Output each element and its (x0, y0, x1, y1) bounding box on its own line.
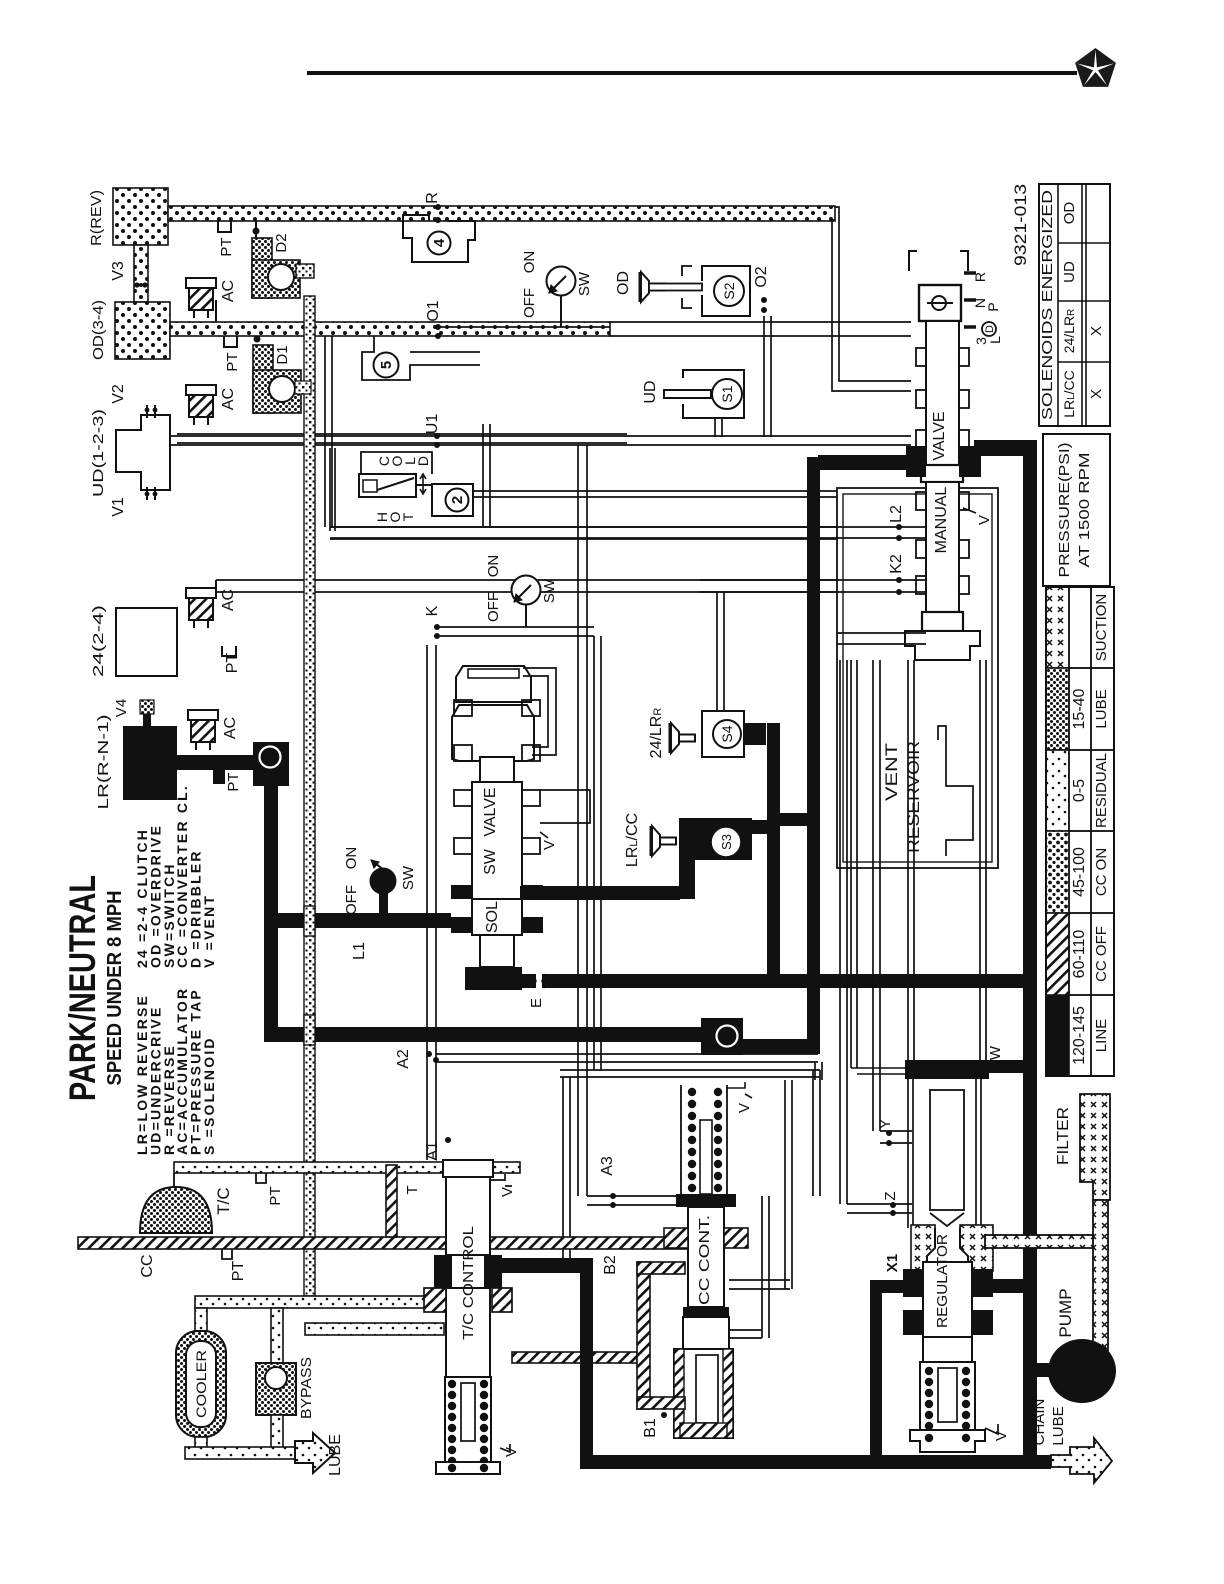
valve: T/C control upper (446, 1160, 490, 1255)
svg-text:OD: OD (1061, 202, 1078, 225)
vent V at t/c control (500, 1444, 510, 1452)
wire: K line right segment (434, 626, 594, 628)
svg-text:UD: UD (642, 380, 659, 403)
svg-text:5: 5 (378, 361, 395, 369)
junction square 3 (701, 1018, 743, 1055)
header rule line (307, 71, 1077, 75)
svg-text:LUBE: LUBE (1050, 1406, 1067, 1445)
wire: CC CONT output right (729, 1279, 790, 1281)
valve: CC CONT body (676, 1194, 736, 1207)
spool above regulator (W) (905, 1060, 989, 1079)
svg-text:A2: A2 (395, 1049, 412, 1069)
wire: R line turning to manual valve (835, 207, 911, 381)
check ball 5 loop (362, 336, 480, 380)
svg-text:T/C: T/C (214, 1187, 233, 1214)
svg-text:O1: O1 (425, 300, 442, 321)
svg-text:X1: X1 (884, 1254, 901, 1272)
suction channel to regulator (985, 1235, 1093, 1248)
svg-text:V =VENT: V =VENT (201, 894, 217, 968)
wire: D1 link channel (295, 381, 311, 394)
wire: U1 line to manual valve (340, 435, 911, 437)
hatch channel to B2 (512, 1352, 637, 1363)
vent at cc accumulator (727, 1082, 752, 1098)
svg-text:K2: K2 (888, 554, 905, 574)
svg-text:S1: S1 (719, 385, 735, 402)
valve: CC control spring (accumulator) (680, 1085, 682, 1194)
svg-text:S4: S4 (719, 725, 735, 742)
accumulator AC (od) (186, 385, 216, 395)
svg-text:VENT: VENT (882, 743, 901, 801)
switch SW (solenoid, on thick line) (370, 868, 397, 895)
wire: O1 line (610, 321, 911, 323)
svg-text:ON: ON (521, 251, 538, 274)
wire: K2 line from 24 accumulator (216, 579, 899, 581)
svg-text:OD(3-4): OD(3-4) (90, 300, 107, 360)
svg-text:A3: A3 (599, 1156, 616, 1176)
wire thick: X1 branch (870, 1280, 912, 1293)
junction square 1 (253, 742, 289, 786)
wire: R(REV) supply channel (168, 206, 835, 221)
wire: AC od riser (215, 300, 217, 322)
svg-text:PT: PT (267, 1186, 284, 1205)
wire thick: left drop from valve (807, 457, 820, 988)
svg-text:S2: S2 (721, 282, 737, 299)
wire: A1/A2 riser pair (426, 645, 428, 1160)
pressure tap PT (rev) (218, 221, 231, 232)
svg-text:D2: D2 (273, 233, 290, 252)
svg-text:LRL/CC: LRL/CC (1061, 370, 1077, 418)
pressure tap PT (t/c feed) (256, 1173, 266, 1183)
svg-text:CHAIN: CHAIN (1031, 1399, 1048, 1446)
svg-text:V: V (503, 1447, 520, 1457)
wire: S2 to U1 riser (763, 316, 765, 437)
dribbler D1 (254, 336, 261, 343)
valve: regulator body (923, 1262, 972, 1337)
wire: hot line stub (416, 484, 432, 486)
wire: CC CONT lower output (729, 1329, 762, 1331)
svg-text:B1: B1 (642, 1418, 659, 1438)
accumulator AC (lr) (188, 710, 218, 720)
wire thick: E manifold bar (467, 974, 1030, 988)
wire thick: 1 down (264, 786, 278, 1042)
svg-text:PT: PT (230, 1261, 247, 1282)
solenoid stub S4 black (744, 723, 766, 745)
svg-text:V1: V1 (110, 497, 127, 517)
wire: UD output to U1 line (170, 435, 340, 437)
svg-text:V: V (541, 840, 558, 850)
valve SW VALVE body (480, 757, 514, 782)
wire thick: LR clutch to 1 (177, 755, 253, 770)
wire: L2 line into valve (330, 526, 926, 528)
check ball 2 loop (432, 484, 473, 516)
valve SW VALVE spool top barrels (456, 666, 531, 702)
valve: regulator lower + spring (923, 1337, 972, 1362)
svg-text:1: 1 (263, 753, 278, 760)
svg-text:L: L (987, 336, 1003, 344)
table: pattern legend (1046, 587, 1069, 668)
switch SW (overdrive) (547, 267, 576, 296)
svg-text:CC: CC (139, 1254, 156, 1277)
svg-text:D1: D1 (274, 345, 291, 364)
svg-text:LRL/CC: LRL/CC (624, 813, 641, 867)
svg-text:S3: S3 (719, 834, 734, 850)
vent reservoir baffle (938, 726, 973, 856)
pressure tap PT (24) (222, 646, 236, 656)
svg-text:D: D (415, 456, 431, 466)
svg-text:24(2-4): 24(2-4) (90, 605, 107, 677)
valve: CC CONT plunger (683, 1307, 729, 1317)
svg-text:SPEED UNDER 8 MPH: SPEED UNDER 8 MPH (104, 891, 126, 1086)
manual valve inlet collars black (906, 446, 926, 477)
svg-text:LUBE: LUBE (327, 1434, 344, 1476)
valve: regulator neck with suction hatch (911, 1225, 935, 1271)
wire thick: S3 to vertical (752, 820, 770, 834)
svg-text:AT 1500 RPM: AT 1500 RPM (1076, 453, 1093, 568)
switch SW (lockup) (512, 576, 541, 605)
wire: 24 clutch line to K (177, 433, 627, 435)
svg-text:V3: V3 (110, 261, 127, 281)
clutch R(REV) (113, 188, 168, 245)
node V3 channel (134, 245, 148, 302)
svg-text:CC OFF: CC OFF (1093, 926, 1110, 982)
wire thick: 3 to manual-valve drop (743, 1039, 820, 1054)
svg-text:V4: V4 (113, 699, 130, 717)
svg-text:0-5: 0-5 (1071, 779, 1088, 802)
accumulator AC (reverse) (186, 278, 216, 288)
wire thick: into 3 from left (278, 1027, 701, 1042)
svg-text:120-145: 120-145 (1071, 1006, 1088, 1065)
svg-text:L2: L2 (888, 505, 905, 523)
svg-text:B2: B2 (602, 1255, 619, 1275)
svg-text:AC: AC (220, 388, 237, 410)
thermal bypass loop (329, 448, 331, 531)
wire: E return lines under reservoir (560, 1069, 820, 1071)
cooler return channel (305, 1323, 444, 1335)
check ball 4 loop (403, 215, 475, 262)
svg-text:SUCTION: SUCTION (1093, 594, 1110, 662)
valve: manual valve lower body (926, 482, 959, 612)
svg-text:OFF: OFF (343, 885, 360, 915)
wire: S1 down to U1 line (714, 418, 716, 437)
wire: dribbler return channel (long vertical) (296, 264, 314, 278)
svg-text:PT: PT (218, 237, 235, 256)
svg-text:2: 2 (449, 496, 466, 504)
wire: valve collar line (473, 490, 908, 492)
svg-text:T: T (404, 1185, 421, 1194)
svg-text:45-100: 45-100 (1071, 847, 1088, 897)
wire thick: pump inlet (1030, 1363, 1055, 1377)
svg-text:T/C CONTROL: T/C CONTROL (460, 1226, 477, 1340)
svg-text:K: K (424, 605, 441, 616)
svg-text:3: 3 (720, 1032, 735, 1039)
valve: manual valve shifter (909, 251, 917, 271)
wire thick: S4 to junction (767, 723, 780, 988)
pressure tap PT (cc) (222, 1249, 232, 1259)
wire: A3 into CC control (587, 1195, 690, 1197)
vent V at regulator (985, 1424, 998, 1434)
wire thick: L1 line to SOL valve (264, 913, 451, 928)
svg-text:SW: SW (541, 578, 558, 603)
wire thick: bottom LINE bar (580, 1455, 1051, 1469)
valve body side lands (454, 700, 472, 716)
svg-text:V: V (993, 1431, 1010, 1441)
solenoid S5 black cap (465, 967, 522, 990)
wire: Z into regulator (847, 1203, 912, 1205)
gear position marks R N P D 3 L (964, 271, 976, 275)
chain lube arrow (1051, 1438, 1112, 1483)
wire: grit channel overlay at L1 bar (304, 906, 315, 936)
svg-text:PARK/NEUTRAL: PARK/NEUTRAL (62, 875, 103, 1101)
svg-text:PT: PT (224, 653, 241, 674)
cooler (176, 1331, 226, 1437)
pressure tap PT (od) (224, 336, 237, 347)
svg-text:SOL: SOL (484, 901, 501, 933)
svg-text:PT: PT (224, 352, 241, 371)
cooler riser channels (195, 1308, 207, 1331)
bracket B2 hatched (637, 1262, 650, 1409)
suction channel vertical (1093, 1200, 1108, 1356)
svg-text:SOLENOIDS ENERGIZED: SOLENOIDS ENERGIZED (1040, 190, 1056, 420)
svg-text:UD: UD (1061, 261, 1078, 283)
clutch UD(1-2-3) (116, 415, 170, 490)
wire: S4 riser pair (716, 592, 718, 711)
svg-text:E: E (528, 998, 545, 1008)
valve: manual valve body (926, 321, 959, 465)
table: solenoids energized (1039, 184, 1110, 426)
wire: OD line drop pair (324, 336, 326, 527)
wire: valve mid loop to right (540, 790, 590, 823)
wire: grit channel overlay at line bar (304, 1015, 315, 1045)
svg-text:4: 4 (431, 238, 448, 247)
svg-text:LUBE: LUBE (1093, 689, 1110, 728)
svg-text:AC: AC (220, 280, 237, 302)
svg-text:CC CONT.: CC CONT. (696, 1215, 713, 1305)
wire thick: T/C control to corner (500, 1258, 592, 1273)
svg-text:X: X (1088, 326, 1105, 336)
svg-text:PRESSURE(PSI): PRESSURE(PSI) (1056, 443, 1073, 578)
clutch OD(3-4) (115, 302, 170, 359)
svg-text:R: R (972, 272, 988, 282)
svg-text:V: V (976, 515, 993, 525)
solenoid section SOL (451, 885, 472, 899)
wire: valve top loop (523, 668, 556, 755)
hatch riser to A1/T (386, 1165, 397, 1237)
wire: Y riser pair (872, 660, 874, 1131)
svg-text:L1: L1 (351, 942, 368, 960)
svg-text:UD(1-2-3): UD(1-2-3) (90, 409, 107, 497)
pressure tap PT (lr) (213, 770, 225, 784)
wire: Z riser pair (839, 660, 841, 1204)
wire: K2 line into valve (700, 579, 926, 581)
svg-text:R: R (424, 192, 441, 204)
svg-text:COOLER: COOLER (193, 1350, 209, 1418)
svg-text:T: T (400, 512, 416, 521)
svg-text:V: V (736, 1103, 753, 1113)
svg-text:U1: U1 (424, 414, 441, 435)
converter feed channel (residual) (174, 1162, 520, 1173)
svg-text:FILTER: FILTER (1055, 1107, 1072, 1165)
svg-text:VALVE: VALVE (931, 411, 948, 460)
svg-text:S =SOLENOID: S =SOLENOID (201, 1036, 217, 1155)
svg-text:PUMP: PUMP (1056, 1288, 1075, 1337)
cooler feed channel (195, 1296, 444, 1308)
svg-text:BYPASS: BYPASS (298, 1357, 315, 1419)
wire: K drop pair (593, 636, 595, 1070)
svg-text:ON: ON (485, 555, 502, 578)
vent reservoir (837, 488, 998, 868)
svg-text:X: X (1088, 389, 1105, 399)
valve: T/C control collars black (434, 1255, 452, 1288)
svg-text:60-110: 60-110 (1071, 930, 1088, 979)
wire: A2 line right (436, 1053, 818, 1055)
svg-text:OD: OD (615, 271, 632, 295)
wire thick: main right drop (1023, 440, 1037, 1468)
wire thick: corner drop (580, 1258, 593, 1462)
valve: regulator collars black (903, 1269, 923, 1297)
svg-text:MANUAL: MANUAL (933, 487, 950, 554)
valve: T/C control body + label (446, 1288, 490, 1377)
valve: manual valve collar (921, 465, 963, 482)
svg-text:R(REV): R(REV) (88, 190, 105, 246)
svg-text:V2: V2 (110, 384, 127, 404)
svg-text:A1: A1 (424, 1141, 441, 1161)
svg-text:SW: SW (400, 865, 417, 890)
table: pressure psi (1043, 434, 1110, 586)
wire: line into lower valve (837, 632, 926, 634)
valve: T/C control side stubs (492, 1288, 512, 1312)
svg-text:Z: Z (882, 1191, 899, 1200)
svg-text:AC: AC (222, 717, 239, 739)
svg-text:W: W (987, 1045, 1004, 1060)
svg-text:D: D (984, 325, 996, 333)
wire: OD supply channel (170, 322, 610, 336)
wire: Y into spool (880, 1130, 912, 1132)
wire thick: manual valve right to drop (974, 440, 1036, 456)
accumulator AC (24) (186, 588, 216, 598)
Chrysler pentastar logo (1075, 48, 1116, 87)
svg-text:LINE: LINE (1093, 1019, 1110, 1052)
svg-text:CC ON: CC ON (1093, 848, 1110, 896)
clutch 24(2-4) (116, 608, 177, 676)
wire: B2 riser pair (562, 1077, 564, 1262)
svg-text:15-40: 15-40 (1071, 688, 1088, 729)
svg-text:Y: Y (877, 1119, 894, 1129)
svg-text:REGULATOR: REGULATOR (934, 1234, 951, 1328)
svg-text:PT: PT (225, 772, 242, 791)
thermal element COLD/HOT (361, 452, 432, 474)
svg-text:SW: SW (482, 848, 499, 875)
wire thick: S4 tee to left drop (780, 813, 810, 826)
wire: spool risers (907, 660, 909, 1060)
svg-text:ON: ON (343, 847, 360, 870)
svg-text:SW: SW (576, 271, 593, 296)
clutch LR(R-N-1) applied (123, 726, 177, 800)
svg-text:LR(R-N-1): LR(R-N-1) (95, 715, 112, 810)
svg-text:P: P (985, 302, 1001, 311)
svg-text:9321-013: 9321-013 (1011, 184, 1030, 266)
svg-text:O2: O2 (753, 266, 770, 287)
lube channel + arrow (195, 1437, 207, 1453)
wire thick: regulator out to main drop (993, 1279, 1030, 1293)
torque converter T/C dome (140, 1187, 212, 1233)
valve: manual valve bottom flange (922, 612, 963, 631)
valve: T/C control spring (445, 1377, 491, 1462)
wire thick: SOL to S3 (520, 886, 680, 900)
svg-text:RESIDUAL: RESIDUAL (1093, 753, 1110, 828)
dribbler D2 (253, 228, 260, 235)
svg-text:OFF: OFF (521, 288, 538, 318)
wire: A3 riser pair (577, 445, 579, 1196)
bypass valve (256, 1363, 296, 1415)
svg-text:VALVE: VALVE (482, 787, 499, 836)
pump (1048, 1339, 1116, 1403)
cc return channel (cc-off hatch) (78, 1237, 690, 1249)
wire thick: to manual valve left (818, 455, 913, 470)
cylinder B1 (674, 1349, 733, 1438)
svg-text:V: V (499, 1187, 516, 1197)
svg-text:OFF: OFF (485, 592, 502, 622)
